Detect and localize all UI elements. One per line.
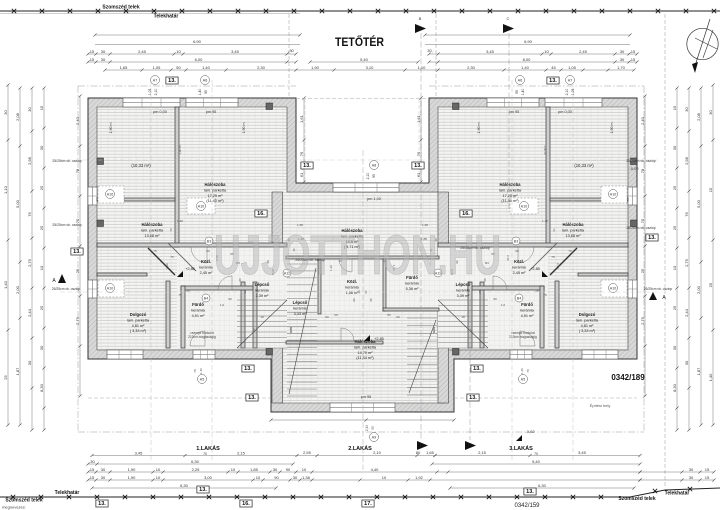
svg-text:C: C (507, 16, 510, 21)
svg-text:Fürdő: Fürdő (521, 302, 533, 307)
svg-text:pm 95: pm 95 (361, 395, 372, 399)
svg-text:10: 10 (231, 467, 236, 472)
svg-text:30: 30 (293, 475, 298, 480)
svg-text:75: 75 (170, 255, 174, 259)
svg-text:2,10: 2,10 (165, 263, 169, 269)
svg-text:30: 30 (101, 475, 106, 480)
svg-text:2,15: 2,15 (237, 450, 246, 455)
svg-text:Hálószoba: Hálószoba (355, 339, 377, 344)
svg-text:A9: A9 (372, 435, 376, 439)
svg-text:1,40: 1,40 (521, 65, 530, 70)
svg-text:30: 30 (689, 475, 694, 480)
svg-text:2,40: 2,40 (75, 116, 80, 125)
svg-text:13,68 m²: 13,68 m² (145, 234, 161, 238)
svg-text:A6: A6 (203, 78, 207, 82)
svg-text:A5: A5 (200, 377, 204, 381)
svg-text:78: 78 (75, 168, 80, 173)
svg-text:55: 55 (387, 313, 391, 317)
svg-text:1,40: 1,40 (199, 368, 203, 374)
svg-text:15: 15 (39, 105, 44, 110)
svg-text:B4: B4 (517, 296, 521, 300)
svg-text:15: 15 (705, 475, 710, 480)
svg-text:90: 90 (493, 297, 497, 301)
svg-text:90: 90 (369, 298, 373, 302)
svg-text:kerámia: kerámia (512, 265, 526, 269)
svg-text:13.: 13. (303, 163, 311, 169)
svg-text:5,40: 5,40 (532, 459, 541, 464)
svg-text:0342/159: 0342/159 (514, 503, 540, 509)
svg-text:30: 30 (39, 345, 44, 350)
svg-text:A5: A5 (521, 377, 525, 381)
svg-text:15: 15 (672, 105, 677, 110)
svg-text:(10,33 m²): (10,33 m²) (574, 163, 594, 168)
svg-text:1,40: 1,40 (202, 65, 211, 70)
svg-text:UJJOTTHON.HU: UJJOTTHON.HU (214, 223, 501, 286)
svg-text:13.: 13. (168, 78, 176, 84)
svg-text:15: 15 (708, 187, 713, 192)
svg-text:1,40: 1,40 (3, 280, 8, 289)
svg-text:10: 10 (302, 467, 307, 472)
svg-text:kerámia: kerámia (191, 308, 205, 312)
svg-text:2.LAKÁS: 2.LAKÁS (348, 445, 372, 452)
svg-text:6,30: 6,30 (180, 483, 189, 488)
svg-text:1,61: 1,61 (299, 114, 304, 123)
svg-text:30: 30 (3, 110, 8, 115)
svg-text:4,81 m²: 4,81 m² (581, 324, 595, 328)
svg-text:10: 10 (252, 328, 256, 332)
svg-text:210cm magasságig: 210cm magasságig (509, 335, 537, 339)
svg-text:B3: B3 (514, 239, 518, 243)
svg-text:Fürdő: Fürdő (192, 302, 204, 307)
svg-text:10: 10 (39, 265, 44, 270)
svg-text:Telekhatár: Telekhatár (665, 491, 690, 497)
svg-text:2,40: 2,40 (640, 116, 645, 125)
svg-text:A10: A10 (610, 192, 616, 196)
svg-text:15: 15 (631, 49, 636, 54)
svg-text:10: 10 (156, 467, 161, 472)
svg-text:lam. parketta: lam. parketta (499, 188, 522, 192)
svg-text:5,00: 5,00 (696, 199, 701, 208)
svg-text:1,48: 1,48 (177, 219, 183, 223)
svg-text:30: 30 (689, 467, 694, 472)
svg-text:-0,02: -0,02 (525, 429, 535, 434)
svg-text:18: 18 (461, 315, 465, 319)
svg-text:2,98: 2,98 (27, 156, 32, 165)
svg-text:76: 76 (299, 151, 304, 156)
svg-text:A10: A10 (107, 192, 113, 196)
svg-text:pm 0,00: pm 0,00 (558, 110, 572, 114)
svg-text:4,40: 4,40 (371, 467, 380, 472)
svg-text:30: 30 (27, 107, 32, 112)
svg-text:Dolgozó: Dolgozó (130, 312, 147, 317)
svg-text:( 3,33 m²): ( 3,33 m²) (130, 329, 147, 333)
svg-text:25: 25 (535, 289, 539, 293)
svg-text:2,55: 2,55 (303, 450, 312, 455)
svg-text:5,36 m²: 5,36 m² (406, 287, 420, 291)
svg-text:2,10: 2,10 (506, 255, 510, 261)
svg-text:pm 0,00: pm 0,00 (153, 110, 167, 114)
svg-text:15: 15 (90, 475, 95, 480)
svg-text:,30: ,30 (288, 48, 294, 53)
svg-text:3,25: 3,25 (289, 327, 293, 333)
svg-text:2,19: 2,19 (365, 425, 369, 431)
svg-text:A10: A10 (107, 286, 113, 290)
svg-text:25: 25 (3, 375, 8, 380)
svg-text:2,45 m²: 2,45 m² (513, 271, 527, 275)
svg-text:2,30: 2,30 (257, 65, 266, 70)
svg-text:1,90 m: 1,90 m (477, 123, 481, 134)
svg-text:10: 10 (256, 475, 261, 480)
svg-text:A10: A10 (610, 286, 616, 290)
svg-text:Hálószoba: Hálószoba (500, 182, 522, 187)
svg-text:30: 30 (101, 49, 106, 54)
svg-text:30: 30 (101, 467, 106, 472)
svg-text:Dolgozó: Dolgozó (579, 312, 596, 317)
svg-text:1,90 m: 1,90 m (109, 123, 113, 134)
svg-text:75: 75 (568, 249, 572, 253)
svg-text:B: B (419, 16, 422, 21)
svg-text:kerámia: kerámia (520, 308, 534, 312)
svg-text:1,90: 1,90 (128, 467, 137, 472)
svg-text:13.: 13. (244, 366, 252, 372)
svg-text:2,15: 2,15 (478, 450, 487, 455)
svg-text:10: 10 (156, 475, 161, 480)
svg-text:lam. parketta: lam. parketta (354, 345, 377, 349)
svg-text:A7: A7 (153, 78, 157, 82)
svg-text:1,10: 1,10 (418, 65, 427, 70)
svg-text:kerámia: kerámia (199, 265, 213, 269)
svg-text:70: 70 (169, 228, 173, 232)
svg-text:1,87: 1,87 (15, 367, 20, 376)
svg-text:15: 15 (90, 467, 95, 472)
svg-text:76: 76 (416, 151, 421, 156)
svg-text:25/25cm vb. oszlop: 25/25cm vb. oszlop (644, 287, 673, 291)
svg-text:25/25cm vb. oszlop: 25/25cm vb. oszlop (52, 287, 81, 291)
svg-text:25: 25 (672, 305, 677, 310)
svg-text:A6: A6 (518, 78, 522, 82)
svg-text:30: 30 (620, 49, 625, 54)
svg-text:16.: 16. (242, 501, 250, 507)
svg-text:70: 70 (552, 228, 556, 232)
svg-text:4,91 m²: 4,91 m² (521, 314, 535, 318)
svg-text:lam. parketta: lam. parketta (576, 318, 599, 322)
svg-text:25: 25 (75, 268, 80, 273)
svg-text:78: 78 (526, 369, 530, 373)
svg-text:30: 30 (684, 360, 689, 365)
svg-text:15: 15 (705, 467, 710, 472)
svg-text:13.: 13. (549, 78, 557, 84)
svg-text:25: 25 (672, 185, 677, 190)
svg-text:25/25cm vb. oszlop: 25/25cm vb. oszlop (626, 226, 655, 230)
svg-text:13.: 13. (248, 395, 256, 401)
svg-text:16.: 16. (257, 211, 265, 217)
svg-text:13.: 13. (526, 489, 534, 495)
svg-text:Szomszéd telek: Szomszéd telek (102, 5, 139, 11)
svg-text:Közl.: Közl. (514, 259, 524, 264)
svg-text:1,0: 1,0 (220, 303, 225, 307)
svg-text:Építési hely: Építési hely (590, 403, 611, 408)
svg-text:3,45: 3,45 (486, 49, 495, 54)
svg-text:95: 95 (204, 90, 208, 94)
svg-text:B3: B3 (207, 239, 211, 243)
svg-text:30: 30 (101, 57, 106, 62)
svg-text:4,81 m²: 4,81 m² (132, 324, 146, 328)
svg-text:75: 75 (178, 293, 182, 297)
svg-text:78: 78 (193, 369, 197, 373)
svg-text:1,40: 1,40 (708, 373, 713, 382)
svg-text:kerámia: kerámia (345, 285, 359, 289)
svg-text:2,44: 2,44 (684, 308, 689, 317)
svg-text:30: 30 (90, 459, 95, 464)
svg-text:76: 76 (27, 212, 32, 217)
svg-text:1,90: 1,90 (128, 475, 137, 480)
svg-text:75: 75 (551, 255, 555, 259)
svg-text:B4: B4 (204, 296, 208, 300)
svg-text:pm 95: pm 95 (206, 110, 217, 114)
svg-text:8,30: 8,30 (672, 383, 677, 392)
svg-text:megnevezés:: megnevezés: (2, 505, 26, 510)
svg-text:Közl.: Közl. (201, 259, 211, 264)
svg-text:90: 90 (396, 315, 400, 319)
svg-text:2,79: 2,79 (640, 316, 645, 325)
svg-text:+2,85: +2,85 (185, 267, 195, 271)
svg-text:2,08: 2,08 (15, 112, 20, 121)
svg-text:45: 45 (551, 65, 556, 70)
svg-text:90: 90 (515, 249, 519, 253)
svg-text:13.: 13. (199, 487, 207, 493)
svg-text:30: 30 (708, 110, 713, 115)
svg-text:30: 30 (39, 145, 44, 150)
svg-text:1,90 m: 1,90 m (610, 123, 614, 134)
svg-text:(11,54 m²): (11,54 m²) (356, 356, 374, 360)
svg-text:2,10: 2,10 (366, 173, 370, 180)
svg-text:A10: A10 (521, 204, 527, 208)
svg-text:17,25 m²: 17,25 m² (503, 194, 519, 198)
svg-text:14,70 m²: 14,70 m² (358, 351, 374, 355)
svg-text:1,05: 1,05 (568, 65, 577, 70)
svg-text:A8: A8 (372, 163, 376, 167)
svg-text:lam. parketta: lam. parketta (141, 228, 164, 232)
svg-text:25: 25 (640, 268, 645, 273)
svg-text:3,25: 3,25 (432, 327, 436, 333)
svg-text:6,90: 6,90 (524, 39, 533, 44)
svg-text:13,68 m²: 13,68 m² (566, 234, 582, 238)
svg-text:30,: 30, (427, 48, 433, 53)
svg-text:25/25cm vb. oszlop: 25/25cm vb. oszlop (52, 223, 81, 227)
svg-text:2,25: 2,25 (192, 467, 201, 472)
svg-text:50: 50 (176, 65, 181, 70)
svg-text:10: 10 (176, 49, 181, 54)
svg-text:10: 10 (469, 328, 473, 332)
svg-text:2,30: 2,30 (467, 65, 476, 70)
svg-text:1,90: 1,90 (311, 65, 320, 70)
svg-text:Telekhatár: Telekhatár (154, 14, 179, 20)
svg-text:1,90 m: 1,90 m (543, 145, 547, 155)
svg-text:13.: 13. (414, 163, 422, 169)
svg-text:3,00: 3,00 (204, 475, 213, 480)
svg-text:25: 25 (708, 282, 713, 287)
svg-text:13.: 13. (73, 249, 81, 255)
svg-text:2,45: 2,45 (579, 49, 588, 54)
svg-text:90: 90 (286, 467, 291, 472)
svg-text:lam. parketta: lam. parketta (204, 188, 227, 192)
svg-text:70: 70 (640, 218, 645, 223)
svg-text:1,05: 1,05 (153, 65, 162, 70)
svg-text:2,79: 2,79 (27, 258, 32, 267)
svg-text:1,05: 1,05 (571, 89, 575, 96)
svg-text:90: 90 (274, 475, 279, 480)
svg-text:(10,33 m²): (10,33 m²) (131, 163, 151, 168)
svg-text:25/25cm vb. oszlop: 25/25cm vb. oszlop (52, 159, 81, 163)
svg-text:1,40: 1,40 (198, 89, 202, 96)
svg-text:61: 61 (416, 172, 421, 177)
svg-text:2,10: 2,10 (565, 89, 569, 96)
svg-text:1,05: 1,05 (148, 89, 152, 96)
svg-text:Hálószoba: Hálószoba (205, 182, 227, 187)
svg-text:13.: 13. (469, 395, 477, 401)
svg-text:6,30: 6,30 (191, 459, 200, 464)
svg-text:3.LAKÁS: 3.LAKÁS (509, 445, 533, 452)
svg-text:3,10: 3,10 (366, 65, 375, 70)
svg-text:25: 25 (672, 225, 677, 230)
svg-text:1,92: 1,92 (415, 475, 424, 480)
svg-text:76: 76 (684, 212, 689, 217)
svg-text:61: 61 (299, 172, 304, 177)
svg-text:1,87: 1,87 (696, 367, 701, 376)
svg-text:15: 15 (90, 49, 95, 54)
svg-text:90: 90 (228, 297, 232, 301)
svg-text:(11,40 m²): (11,40 m²) (501, 199, 519, 203)
svg-text:1,70: 1,70 (617, 65, 626, 70)
svg-text:2,00: 2,00 (696, 285, 701, 294)
svg-text:Hálószoba: Hálószoba (142, 222, 164, 227)
svg-text:95: 95 (515, 90, 519, 94)
svg-text:25/25cm vb. oszlop: 25/25cm vb. oszlop (460, 246, 489, 250)
svg-text:17,25 m²: 17,25 m² (208, 194, 224, 198)
svg-text:2,98: 2,98 (684, 156, 689, 165)
svg-text:3,39 m²: 3,39 m² (256, 294, 270, 298)
svg-text:3,45: 3,45 (578, 450, 587, 455)
svg-text:30: 30 (273, 467, 278, 472)
svg-text:2,79: 2,79 (75, 316, 80, 325)
svg-text:25: 25 (186, 289, 190, 293)
svg-text:1,0: 1,0 (501, 303, 506, 307)
svg-text:1,61: 1,61 (416, 114, 421, 123)
svg-text:1,65: 1,65 (426, 450, 435, 455)
svg-text:5,40: 5,40 (360, 57, 369, 62)
svg-text:( 3,33 m²): ( 3,33 m²) (579, 329, 596, 333)
svg-text:1,90 m: 1,90 m (242, 123, 246, 134)
svg-text:10: 10 (672, 265, 677, 270)
svg-text:4,91 m²: 4,91 m² (192, 314, 206, 318)
svg-text:1.LAKÁS: 1.LAKÁS (196, 445, 220, 452)
svg-text:55: 55 (334, 313, 338, 317)
svg-text:pm 1,00: pm 1,00 (367, 197, 381, 201)
svg-text:2,10: 2,10 (154, 89, 158, 96)
svg-text:70: 70 (534, 452, 538, 456)
svg-text:1,10: 1,10 (3, 185, 8, 194)
svg-text:30: 30 (672, 145, 677, 150)
svg-text:1,90 m: 1,90 m (178, 145, 182, 155)
svg-text:30: 30 (27, 360, 32, 365)
svg-text:1,85: 1,85 (250, 467, 259, 472)
svg-text:0342/189: 0342/189 (611, 373, 645, 382)
svg-text:3,43 m²: 3,43 m² (294, 312, 308, 316)
svg-text:2,45: 2,45 (138, 49, 147, 54)
svg-text:90: 90 (206, 249, 210, 253)
svg-text:A7: A7 (568, 78, 572, 82)
svg-text:2,00: 2,00 (15, 285, 20, 294)
svg-text:2,44: 2,44 (27, 308, 32, 317)
svg-text:A10: A10 (198, 204, 204, 208)
svg-text:(11,40 m²): (11,40 m²) (206, 199, 224, 203)
svg-text:16.: 16. (462, 211, 470, 217)
svg-text:Telekhatár: Telekhatár (55, 490, 80, 496)
svg-text:-0,02: -0,02 (629, 166, 639, 171)
svg-text:30: 30 (684, 107, 689, 112)
svg-text:2,45 m²: 2,45 m² (200, 271, 214, 275)
svg-text:25: 25 (39, 185, 44, 190)
svg-text:75: 75 (543, 293, 547, 297)
svg-text:8,00: 8,00 (523, 57, 532, 62)
svg-text:17.: 17. (364, 501, 372, 507)
svg-text:30: 30 (620, 57, 625, 62)
svg-text:5,00: 5,00 (15, 199, 20, 208)
svg-text:10: 10 (382, 475, 387, 480)
svg-text:15: 15 (631, 57, 636, 62)
svg-text:2,79: 2,79 (684, 258, 689, 267)
svg-text:2,08: 2,08 (696, 112, 701, 121)
svg-text:95: 95 (372, 174, 376, 178)
svg-text:1,38: 1,38 (302, 475, 311, 480)
svg-text:1,65: 1,65 (120, 65, 129, 70)
svg-text:30: 30 (672, 345, 677, 350)
svg-text:25/25cm vb. oszlop: 25/25cm vb. oszlop (626, 159, 655, 163)
svg-text:Lépcső: Lépcső (293, 300, 308, 305)
svg-text:15: 15 (90, 57, 95, 62)
svg-text:75: 75 (153, 249, 157, 253)
svg-text:+2,85: +2,85 (530, 267, 540, 271)
svg-text:Hálószoba: Hálószoba (563, 222, 585, 227)
svg-text:18: 18 (260, 315, 264, 319)
svg-text:90: 90 (325, 315, 329, 319)
svg-text:95: 95 (371, 426, 375, 430)
svg-text:13.: 13. (98, 501, 106, 507)
svg-text:25/25cm vb. oszlop: 25/25cm vb. oszlop (295, 258, 324, 262)
svg-text:10: 10 (544, 49, 549, 54)
svg-text:1,48: 1,48 (542, 219, 548, 223)
svg-text:80: 80 (416, 450, 421, 455)
svg-text:70: 70 (203, 452, 207, 456)
svg-text:3,45: 3,45 (231, 49, 240, 54)
svg-text:3,45: 3,45 (135, 450, 144, 455)
svg-text:25: 25 (39, 225, 44, 230)
svg-text:2,10: 2,10 (373, 450, 382, 455)
svg-text:6,90: 6,90 (193, 39, 202, 44)
svg-text:78: 78 (640, 168, 645, 173)
svg-text:2,10: 2,10 (556, 263, 560, 269)
svg-text:+2,85: +2,85 (374, 337, 384, 341)
svg-text:lam. parketta: lam. parketta (562, 228, 585, 232)
svg-text:Szomszéd telek: Szomszéd telek (618, 496, 655, 502)
svg-text:Szomszéd telek: Szomszéd telek (5, 498, 42, 504)
svg-text:6,00: 6,00 (195, 57, 204, 62)
svg-text:13.: 13. (648, 235, 656, 241)
svg-text:TETŐTÉR: TETŐTÉR (335, 34, 384, 49)
svg-text:25: 25 (39, 305, 44, 310)
svg-text:kerámia: kerámia (293, 306, 307, 310)
svg-text:1,40: 1,40 (520, 368, 524, 374)
